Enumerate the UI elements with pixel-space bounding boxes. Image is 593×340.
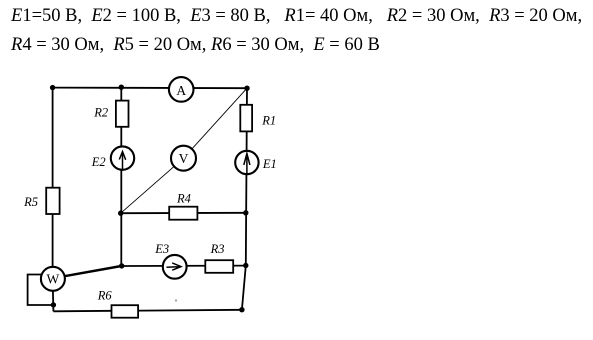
junction node R3 right: [243, 263, 248, 268]
source E3 circle: [163, 255, 187, 279]
parameter text line 1 and 2: [11, 2, 582, 62]
wire thick wattmeter to node: [65, 266, 122, 276]
svg-text:R3: R3: [210, 242, 225, 256]
junction node top-right: [244, 86, 249, 91]
wire right vertical: [246, 88, 247, 265]
svg-text:E1: E1: [262, 157, 277, 171]
svg-text:R1: R1: [261, 113, 276, 127]
junction node bottom-right: [239, 307, 244, 312]
wire wattmeter bottom stub: [52, 291, 55, 312]
stray speck: [175, 299, 177, 301]
source E2 arrow up: [119, 152, 125, 170]
svg-text:R5: R5: [23, 195, 38, 209]
svg-text:E3: E3: [154, 242, 169, 256]
resistor R3: [205, 260, 233, 273]
resistor R4: [169, 207, 197, 220]
svg-text:W: W: [47, 272, 60, 287]
wire top horizontal: [53, 87, 247, 90]
svg-text:R2: R2: [93, 106, 108, 120]
junction node E3 left: [119, 263, 124, 268]
junction node wattmeter loop: [51, 302, 56, 307]
wire R4 branch horizontal: [121, 212, 246, 214]
wire E3-R3 branch horizontal: [121, 265, 246, 267]
source E3 arrow right: [167, 263, 182, 270]
wattmeter W circle: [41, 267, 65, 291]
resistor R6: [112, 305, 139, 318]
resistor R1: [240, 105, 252, 132]
resistor R5: [46, 188, 59, 214]
svg-text:R6: R6: [97, 289, 113, 303]
voltmeter V circle: [171, 146, 196, 171]
junction node R4 left: [118, 211, 123, 216]
wire bottom horizontal: [53, 310, 242, 312]
svg-text:V: V: [179, 151, 189, 166]
junction node top-middle: [119, 85, 124, 90]
source E1 circle: [235, 151, 258, 174]
source E1 arrow up: [244, 153, 250, 174]
svg-text:A: A: [176, 83, 186, 98]
junction node R4 right: [243, 210, 248, 215]
junction node top-left: [50, 85, 55, 90]
wire thin diagonal voltmeter link: [121, 88, 247, 213]
wire wattmeter left loop: [28, 275, 54, 306]
svg-text:R4: R4: [176, 192, 191, 206]
svg-text:E2: E2: [91, 155, 106, 169]
ammeter A circle: [169, 77, 194, 102]
wire left vertical: [52, 88, 54, 267]
resistor R2: [116, 101, 129, 127]
wire bottom-right slanted riser: [242, 266, 246, 310]
source E2 circle: [111, 146, 134, 169]
wire middle vertical: [120, 88, 122, 266]
